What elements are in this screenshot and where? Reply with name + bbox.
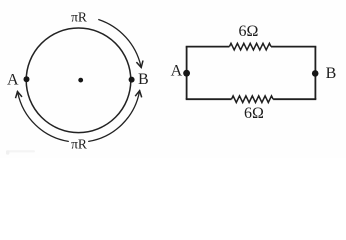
svg-text:6Ω: 6Ω: [238, 23, 258, 40]
svg-text:A: A: [7, 71, 19, 88]
node A (left terminal of loop): [24, 76, 30, 82]
wire: upper arc arrow shaft toward B: [99, 20, 141, 68]
arrowhead at B on lower arc: [135, 91, 142, 98]
faint cut-off text smudge bottom-left (scan artifact): [6, 150, 35, 152]
wire: right side of equivalent circuit: [314, 47, 316, 100]
arrowhead at B on upper arc: [136, 61, 143, 68]
svg-text:πR: πR: [71, 10, 87, 25]
wire: lower-right arc arrow shaft toward B: [89, 91, 140, 142]
wire: top-right segment: [271, 46, 316, 48]
wire: left side of equivalent circuit: [186, 47, 188, 100]
wire: bottom-right segment: [273, 98, 316, 100]
resistor R2 bottom branch: [232, 96, 274, 103]
wire: top-left segment: [186, 46, 230, 48]
wire: circular loop conductor: [26, 28, 131, 133]
center dot: [78, 78, 83, 83]
wire: lower-left arc arrow shaft toward A: [18, 92, 69, 142]
node B (right terminal of loop): [129, 77, 135, 83]
wire: bottom-left segment: [186, 98, 232, 100]
svg-text:A: A: [171, 62, 183, 79]
svg-text:B: B: [326, 65, 337, 82]
node A (equivalent circuit input terminal): [183, 70, 190, 77]
svg-text:πR: πR: [71, 136, 87, 151]
svg-text:6Ω: 6Ω: [244, 105, 264, 122]
svg-text:B: B: [138, 71, 149, 88]
arrowhead at A on lower arc: [16, 92, 23, 99]
node B (equivalent circuit output terminal): [312, 70, 319, 77]
resistor R1 top branch: [229, 43, 271, 50]
